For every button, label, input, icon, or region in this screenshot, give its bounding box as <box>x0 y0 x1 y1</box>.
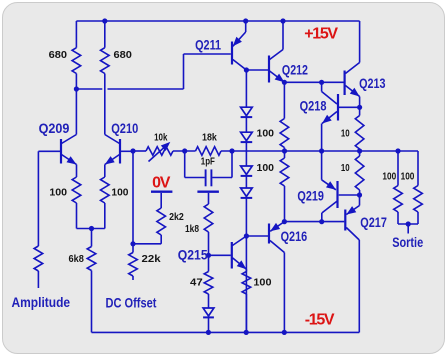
resistor 100 (Q210 emitter) <box>101 165 110 229</box>
label -15V <box>305 312 335 329</box>
transistor Q213 <box>345 21 360 107</box>
node: Q219 base junction <box>357 192 362 197</box>
svg-text:22k: 22k <box>142 253 161 265</box>
node: Q216 emitter junction <box>282 219 287 224</box>
svg-text:100: 100 <box>401 170 415 182</box>
label Q219 <box>297 187 324 203</box>
wire: +15V top rail <box>76 20 359 22</box>
svg-text:680: 680 <box>49 49 68 61</box>
resistor 680 (left) <box>72 21 81 89</box>
svg-text:Amplitude: Amplitude <box>12 294 71 310</box>
transistor Q210 <box>105 135 133 165</box>
node: Q213 emitter junction <box>357 105 362 110</box>
resistor 100 (Q209 emitter) <box>72 165 81 229</box>
node: rail junction F <box>282 330 287 335</box>
svg-text:Q212: Q212 <box>282 61 308 77</box>
label 6k8 <box>69 253 85 265</box>
resistor 100 (Sortie right) <box>414 151 423 224</box>
capacitor 1pF <box>185 151 232 186</box>
resistor 22k <box>129 244 138 280</box>
label 10 (lower) <box>341 162 350 174</box>
wire: Q211 collector to Q212 base <box>246 69 268 71</box>
node: Q215 collector junction <box>244 233 249 238</box>
resistor 1k8 <box>204 193 213 255</box>
label Q218 <box>300 98 327 114</box>
label Q213 <box>359 75 386 91</box>
label Q211 <box>195 37 221 53</box>
label 680 (right) <box>114 49 133 61</box>
svg-text:100: 100 <box>257 162 275 174</box>
svg-text:Q217: Q217 <box>360 214 387 230</box>
label DC Offset <box>106 294 157 310</box>
node: Q212 emitter junction <box>282 80 287 85</box>
potentiometer 10k <box>146 142 173 162</box>
svg-text:10k: 10k <box>154 132 167 144</box>
node: pot junction <box>182 148 187 153</box>
label 100 (Q209 emitter) <box>49 187 67 199</box>
node: Q210 base junction <box>130 148 135 153</box>
wire: Q210 base to offset network <box>132 151 134 244</box>
label Q209 <box>39 120 70 136</box>
diode D5 <box>203 308 214 332</box>
node: bus junction 3 <box>357 148 362 153</box>
diode D2 <box>241 132 253 142</box>
resistor 2k2 <box>133 193 166 244</box>
svg-text:0V: 0V <box>152 175 171 192</box>
svg-text:10: 10 <box>341 162 350 174</box>
node: Q218 collector junction <box>319 80 324 85</box>
wire: emitter join <box>77 228 105 230</box>
node: rail junction D <box>206 330 211 335</box>
node: Q209 collector junction <box>74 86 79 91</box>
wire: Q215 collector to Q216 base <box>246 235 268 237</box>
node: rail junction A <box>102 18 107 23</box>
resistor 100 (Sortie left) <box>394 151 403 224</box>
svg-text:-15V: -15V <box>305 312 335 329</box>
svg-text:Sortie: Sortie <box>392 234 423 250</box>
resistor 18k <box>196 147 222 156</box>
resistor Amplitude input <box>34 151 43 288</box>
transistor Q215 <box>209 236 247 269</box>
label +15V <box>304 26 338 43</box>
node: Q215 base junction <box>206 253 211 258</box>
svg-text:18k: 18k <box>202 132 217 144</box>
label 100 (lower VAS) <box>257 162 275 174</box>
wire: Q209 collector to Q211 base (hop over Q210 branch) <box>76 54 230 89</box>
svg-text:680: 680 <box>114 49 133 61</box>
svg-text:100: 100 <box>111 187 128 199</box>
node: rail junction B <box>243 18 248 23</box>
svg-text:10: 10 <box>341 128 350 140</box>
wire: main output bus <box>133 150 418 152</box>
svg-text:Q209: Q209 <box>39 120 70 136</box>
svg-text:Q219: Q219 <box>297 187 324 203</box>
transistor Q211 <box>232 21 246 70</box>
label 22k <box>142 253 161 265</box>
label 2k2 <box>169 211 184 223</box>
resistor 100 (Q215 emitter) <box>242 269 251 332</box>
svg-text:Q213: Q213 <box>359 75 386 91</box>
node: Sortie junction <box>406 221 411 226</box>
label 18k <box>202 132 217 144</box>
svg-text:100: 100 <box>257 127 275 139</box>
label 100 (Sortie left) <box>382 170 396 182</box>
svg-text:1k8: 1k8 <box>185 223 199 235</box>
resistor 100 (upper VAS) <box>280 82 289 151</box>
label 680 (left) <box>49 49 68 61</box>
svg-text:100: 100 <box>253 277 271 289</box>
label Q210 <box>111 120 138 136</box>
svg-text:DC Offset: DC Offset <box>106 294 157 310</box>
diode D1 <box>241 107 253 117</box>
node: rail junction E <box>244 330 249 335</box>
label 100 (Q215 emitter) <box>253 277 271 289</box>
node: Q217 base junction <box>319 219 324 224</box>
resistor 10 (upper) <box>355 107 364 151</box>
node: offset junction <box>130 241 135 246</box>
resistor 680 (right) <box>101 21 110 135</box>
transistor Q219 <box>322 151 338 222</box>
label 10k <box>154 132 167 144</box>
label 10 (upper) <box>341 128 350 140</box>
label Amplitude <box>12 294 71 310</box>
svg-text:2k2: 2k2 <box>169 211 184 223</box>
label 100 (Sortie right) <box>401 170 415 182</box>
svg-text:Q216: Q216 <box>281 228 308 244</box>
resistor 47 <box>204 255 213 308</box>
transistor Q217 <box>345 195 359 332</box>
label Q215 <box>178 247 208 263</box>
label 100 (Q210 emitter) <box>111 187 128 199</box>
svg-text:6k8: 6k8 <box>69 253 85 265</box>
node: bus junction 1 <box>282 148 287 153</box>
resistor 100 (lower VAS) <box>280 151 289 222</box>
label Q212 <box>282 61 308 77</box>
diode D4 <box>241 188 253 198</box>
wire: -15V bottom rail <box>92 331 360 333</box>
node: tail junction <box>89 226 94 231</box>
svg-text:Q218: Q218 <box>300 98 327 114</box>
wire: Q219 base <box>339 194 360 196</box>
label Q216 <box>281 228 308 244</box>
terminal 0V bar <box>151 190 172 192</box>
transistor Q209 <box>38 89 76 165</box>
label 0V <box>152 175 171 192</box>
wire: Q212 emitter to Q213 base <box>284 81 343 83</box>
label 1pF <box>201 155 216 167</box>
node: 18k right junction <box>229 148 234 153</box>
label 1k8 <box>185 223 199 235</box>
diode D3 <box>241 166 253 176</box>
node: rail junction C <box>280 18 285 23</box>
label 100 (upper VAS) <box>257 127 275 139</box>
svg-text:100: 100 <box>382 170 396 182</box>
resistor 10 (lower) <box>355 151 364 195</box>
svg-text:47: 47 <box>190 277 203 289</box>
label Q217 <box>360 214 387 230</box>
svg-text:Q210: Q210 <box>111 120 138 136</box>
svg-text:Q215: Q215 <box>178 247 208 263</box>
wire: Q216 emitter to Q217 base <box>284 221 344 223</box>
node: bus junction 2 <box>319 148 324 153</box>
wire: Q218 base <box>339 106 360 108</box>
wire: Sortie join <box>398 224 418 234</box>
transistor Q216 <box>269 222 284 333</box>
label Sortie <box>392 234 423 250</box>
transistor Q212 <box>269 21 284 83</box>
node: Q211 collector junction <box>244 67 249 72</box>
svg-text:Q211: Q211 <box>195 37 221 53</box>
wire: diode chain column <box>245 70 247 332</box>
svg-text:100: 100 <box>49 187 67 199</box>
label 47 <box>190 277 203 289</box>
svg-text:+15V: +15V <box>304 26 338 43</box>
terminal 0V bar (1k8 top) <box>197 190 219 192</box>
resistor 6k8 (tail) <box>87 229 96 333</box>
svg-text:1pF: 1pF <box>201 155 216 167</box>
transistor Q218 <box>322 82 338 151</box>
node: bus junction 4 <box>395 148 400 153</box>
